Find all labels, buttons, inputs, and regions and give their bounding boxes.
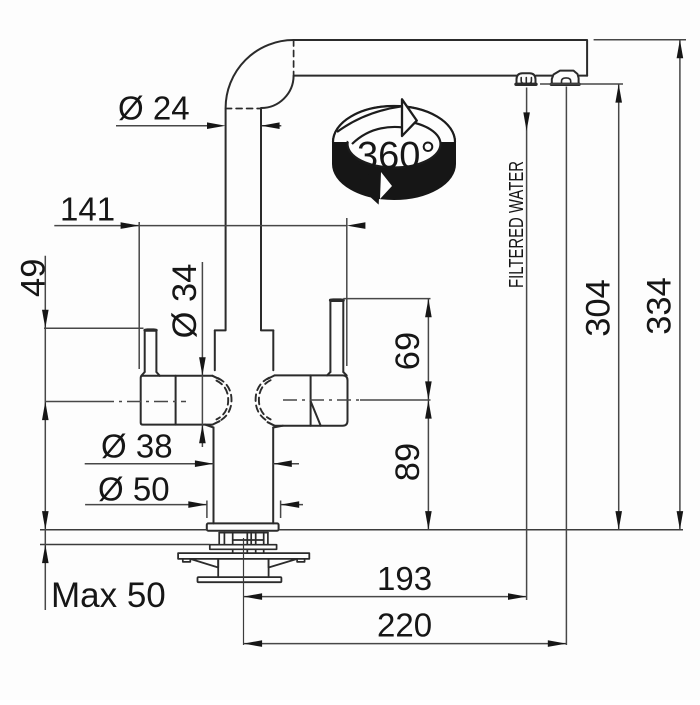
svg-text:193: 193 <box>377 560 432 597</box>
220 dimension line <box>244 643 567 645</box>
symbol black pill band <box>333 106 455 199</box>
right knuckle dashed arcs <box>256 378 270 422</box>
arrowheads 49 (outside) <box>42 310 49 329</box>
svg-text:Ø 38: Ø 38 <box>101 428 173 465</box>
svg-text:Max 50: Max 50 <box>51 576 166 615</box>
symbol outer rim stroke <box>333 106 455 142</box>
spout outer outline (riser left edge, bend, top edge, end face) <box>226 40 587 330</box>
svg-text:Ø 24: Ø 24 <box>118 90 190 127</box>
69/89 vertical dimension line <box>427 299 429 530</box>
shank mid line <box>233 539 264 541</box>
left knuckle dome solid tips <box>213 376 220 425</box>
symbol black arrowhead <box>356 168 380 203</box>
svg-text:FILTERED WATER: FILTERED WATER <box>506 161 528 288</box>
Ø34 vertical dimension line <box>201 262 203 447</box>
arrowheads 220 (inside) <box>244 640 263 647</box>
Ø50 dimension line <box>85 504 303 506</box>
svg-text:141: 141 <box>60 191 115 228</box>
locknut cylinder <box>218 559 268 577</box>
right handle body <box>275 375 348 425</box>
large outlet bold face <box>551 83 579 86</box>
svg-text:Ø 34: Ø 34 <box>166 264 204 339</box>
small outlet (filtered water) <box>517 73 536 84</box>
body block shoulders <box>215 329 273 331</box>
left knuckle dashed arcs <box>218 378 232 422</box>
arrowheads Max50 (outside) <box>42 511 49 530</box>
arrowheads 304 (inside) <box>615 84 622 103</box>
svg-text:49: 49 <box>14 259 52 297</box>
arrowheads 334 (inside) <box>677 40 684 59</box>
symbol arrow band bottom edge <box>352 127 402 144</box>
arrowheads Ø38 (outside) <box>195 460 214 467</box>
symbol inner ellipse <box>348 121 441 168</box>
large outlet (main aerator) <box>552 71 579 84</box>
304 vertical dimension line <box>618 84 620 530</box>
left handle centerline (49 bottom extension) <box>45 401 100 403</box>
spout bottom segment right of large outlet <box>579 75 587 77</box>
49 top extension line <box>44 327 144 329</box>
svg-text:89: 89 <box>389 443 427 481</box>
washer band <box>210 545 277 550</box>
arrowhead filtered water (down) <box>523 112 530 131</box>
spout inner outline (riser right edge, inner bend, bottom edge) <box>261 76 517 330</box>
svg-text:69: 69 <box>389 332 427 370</box>
141 left extension line <box>138 222 140 369</box>
spout bottom segment between outlets <box>536 75 552 77</box>
svg-text:360°: 360° <box>357 135 436 177</box>
right lever handle <box>330 299 343 372</box>
base centerline <box>243 538 245 645</box>
Ø38 dimension line <box>85 463 299 465</box>
plate right tab <box>297 559 305 562</box>
right knuckle dome solid tips <box>268 375 275 425</box>
left wedge <box>190 559 218 568</box>
arrowheads Ø50 (outside) <box>188 501 207 508</box>
horseshoe mounting plate <box>178 553 309 559</box>
bend tangent dashes horizontal <box>226 108 261 110</box>
334 vertical dimension line <box>679 40 681 530</box>
193 dimension line <box>244 596 527 598</box>
arrowheads 141 (outside) <box>121 222 140 229</box>
symbol white arrow band fill <box>336 106 402 145</box>
left handle body divider <box>175 376 177 425</box>
shank block top <box>219 532 268 534</box>
lower column sides <box>214 428 274 524</box>
short verticals below washer <box>233 549 264 553</box>
svg-text:220: 220 <box>377 607 432 644</box>
shank verticals <box>219 533 268 545</box>
svg-text:Ø 50: Ø 50 <box>98 471 170 508</box>
body block sides <box>215 330 273 370</box>
svg-text:304: 304 <box>580 279 618 337</box>
141 right extension line <box>346 218 348 366</box>
small outlet bold face <box>516 83 536 86</box>
arrowheads Ø24 (outside) <box>207 122 226 129</box>
symbol white arrowhead <box>402 99 417 136</box>
arrowheads 89 (inside) <box>425 400 432 419</box>
counter slab bottom line <box>40 544 210 546</box>
counter top surface line <box>40 530 683 545</box>
plate left tab <box>183 559 191 562</box>
bend tangent dashes vertical <box>293 40 295 76</box>
49 and Max50 vertical dimension line <box>44 256 46 610</box>
304 top extension line <box>540 83 623 85</box>
symbol arrow band top edge <box>337 106 402 132</box>
right handle body divider <box>310 375 312 425</box>
arrowheads Ø34 (outside) <box>199 357 206 376</box>
arrowheads 69 (inside) <box>425 299 432 318</box>
360 degree rotation symbol <box>333 99 455 203</box>
arrowheads 193 (inside) <box>244 593 263 600</box>
right handle internal diagonal <box>311 401 321 426</box>
symbol top face white fill <box>333 106 455 142</box>
symbol arrow tail notch <box>380 172 392 199</box>
69 top extension line <box>343 298 430 300</box>
right handle centerline (69/89 middle extension) <box>283 399 360 401</box>
base flange <box>207 523 279 530</box>
334 top extension line <box>594 39 686 41</box>
left lever handle <box>145 329 157 372</box>
dim 141 line <box>54 225 347 227</box>
right wedge <box>269 559 298 568</box>
bottom ring <box>198 577 282 582</box>
filtered water flow line / 193 extension <box>526 88 528 601</box>
Ø38/Ø50 short extension ticks <box>207 501 281 519</box>
svg-text:334: 334 <box>641 277 679 335</box>
dim Ø24 lines <box>116 125 281 127</box>
left handle body <box>141 376 213 425</box>
lower column chamfers <box>205 425 283 428</box>
220 extension from large outlet <box>565 87 567 646</box>
